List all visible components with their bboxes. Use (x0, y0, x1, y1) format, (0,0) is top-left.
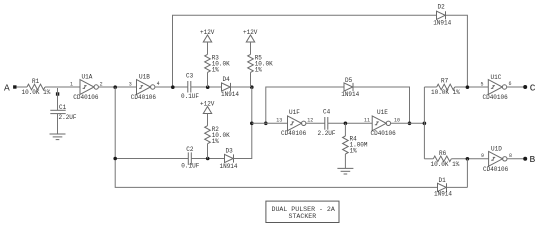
capacitor C4 (318, 108, 336, 136)
svg-text:D3: D3 (226, 148, 234, 155)
wire D4 to junction (231, 86, 252, 88)
svg-text:U1A: U1A (82, 74, 93, 81)
svg-text:0.1UF: 0.1UF (181, 163, 199, 170)
resistor R2 (205, 126, 230, 159)
wire U1A out to U1B in (98, 86, 136, 88)
svg-text:B: B (530, 154, 536, 165)
svg-text:1N914: 1N914 (433, 20, 451, 27)
wire C2 to D3 (191, 158, 224, 160)
wire U1C out to node C (507, 86, 524, 88)
diode D5 (341, 77, 359, 98)
svg-text:A: A (4, 82, 10, 93)
op-amp U1F (inverter) (276, 109, 313, 137)
svg-text:4: 4 (157, 81, 160, 87)
junction D1 riser (466, 157, 470, 161)
wire R1 to U1A input (45, 86, 80, 88)
svg-text:2.2UF: 2.2UF (59, 114, 77, 121)
svg-text:2.2UF: 2.2UF (318, 130, 336, 137)
svg-text:2: 2 (100, 81, 103, 87)
svg-text:STACKER: STACKER (289, 213, 317, 220)
svg-text:CD40106: CD40106 (73, 94, 99, 101)
svg-text:C3: C3 (186, 72, 194, 79)
wire top feedback left segment (173, 15, 437, 87)
op-amp U1E (inverter) (364, 109, 400, 137)
svg-text:CD40106: CD40106 (131, 94, 157, 101)
op-amp U1A (inverter) (70, 74, 103, 101)
svg-text:CD40106: CD40106 (483, 166, 509, 173)
junction top feedback right (466, 85, 470, 89)
junction left rail / C2 row (113, 157, 117, 161)
svg-text:CD40106: CD40106 (281, 130, 307, 137)
svg-text:D1: D1 (439, 177, 447, 184)
svg-text:C4: C4 (323, 108, 331, 115)
svg-text:1N914: 1N914 (341, 91, 359, 98)
svg-text:D4: D4 (223, 76, 231, 83)
wire D5 loop left riser (266, 87, 344, 123)
svg-text:12: 12 (307, 117, 313, 123)
capacitor C2 (181, 146, 199, 169)
svg-text:U1B: U1B (139, 74, 150, 81)
wire C4 to U1E input (328, 122, 372, 124)
wire top feedback right segment (446, 15, 467, 87)
wire C1 tap down (57, 88, 59, 110)
resistor R1 (22, 78, 51, 96)
svg-text:DUAL PULSER - 2A: DUAL PULSER - 2A (272, 206, 335, 213)
title box (266, 201, 339, 222)
op-amp U1D (inverter) (481, 146, 512, 174)
node A (4, 82, 27, 93)
svg-text:0.1UF: 0.1UF (181, 93, 199, 100)
svg-text:10.0K 1%: 10.0K 1% (22, 89, 51, 96)
resistor R7 (431, 78, 460, 96)
node B (523, 154, 535, 165)
svg-text:R1: R1 (32, 78, 40, 85)
wire D1 riser (466, 159, 468, 188)
capacitor C1 (50, 104, 77, 121)
ground (R4) (337, 168, 353, 174)
wire U1B out to C3 (155, 86, 188, 88)
resistor R3 (205, 54, 230, 87)
svg-text:1: 1 (70, 81, 73, 87)
capacitor C3 (181, 72, 199, 100)
junction riser / U1F row (250, 122, 254, 126)
svg-text:U1D: U1D (491, 146, 502, 153)
wire D1 to riser corner (447, 186, 468, 188)
svg-text:9: 9 (481, 153, 484, 159)
wire R6 row lead (424, 158, 433, 160)
diode D4 (221, 76, 239, 98)
wire U1E out to T (391, 122, 425, 124)
wire junction down to lower-left rail (115, 87, 437, 187)
+12V (R2) (200, 101, 215, 126)
junction to top feedback (171, 85, 175, 89)
svg-text:5: 5 (481, 81, 484, 87)
wire vertical R7row-R6row (423, 87, 425, 159)
svg-text:R6: R6 (439, 150, 447, 157)
resistor R6 (431, 150, 460, 168)
svg-text:1%: 1% (350, 148, 358, 155)
op-amp U1C (inverter) (481, 74, 512, 101)
svg-text:CD40106: CD40106 (483, 94, 509, 101)
wire R6 to U1D input (451, 158, 488, 160)
wire U1F input row (252, 122, 288, 124)
svg-text:10.0K 1%: 10.0K 1% (431, 89, 460, 96)
resistor R5 (248, 54, 273, 87)
svg-text:U1E: U1E (377, 109, 388, 116)
junction R3 (206, 85, 210, 89)
node C (523, 82, 536, 93)
wire U1D out to node B (507, 158, 524, 160)
junction C1 tap (56, 92, 59, 95)
svg-text:6: 6 (509, 81, 512, 87)
svg-text:1%: 1% (212, 138, 220, 145)
junction T vertical (423, 122, 427, 126)
svg-text:1%: 1% (212, 67, 220, 74)
wire riser main node down to D3 row (235, 87, 252, 158)
svg-text:1N914: 1N914 (434, 191, 452, 198)
wire C3 to D4 (191, 86, 222, 88)
svg-text:R7: R7 (441, 78, 449, 85)
svg-text:1N914: 1N914 (221, 91, 239, 98)
svg-text:1N914: 1N914 (220, 163, 238, 170)
junction loop left (264, 122, 268, 126)
svg-text:C2: C2 (186, 146, 194, 153)
svg-text:D2: D2 (438, 4, 446, 11)
svg-text:13: 13 (276, 117, 282, 123)
junction (113, 85, 117, 89)
wire C2 row from left rail (115, 158, 188, 160)
svg-text:D5: D5 (345, 77, 353, 84)
junction R5 / riser (250, 85, 254, 89)
svg-text:U1F: U1F (289, 109, 300, 116)
svg-text:3: 3 (129, 81, 132, 87)
junction R2 (206, 157, 210, 161)
svg-text:1%: 1% (255, 67, 263, 74)
ground (C1) (50, 134, 66, 140)
svg-text:10: 10 (394, 117, 400, 123)
diode D1 (434, 177, 452, 197)
+12V (R5) (243, 29, 258, 54)
wire C1 to ground (57, 114, 59, 134)
diode D2 (433, 4, 451, 27)
wire R7 to U1C input (455, 86, 489, 88)
+12V (R3) (200, 29, 215, 54)
svg-text:11: 11 (364, 117, 370, 123)
svg-text:CD40106: CD40106 (371, 130, 397, 137)
resistor R4 (343, 123, 368, 168)
diode D3 (220, 148, 238, 171)
wire U1F out to C4 (306, 122, 325, 124)
svg-text:C1: C1 (59, 104, 67, 111)
junction loop right (408, 122, 412, 126)
wire D3 to riser (drawn above) (234, 158, 252, 160)
svg-text:C: C (530, 82, 536, 93)
svg-text:U1C: U1C (491, 74, 502, 81)
svg-text:10.0K 1%: 10.0K 1% (431, 161, 460, 168)
op-amp U1B (inverter) (129, 74, 160, 101)
wire R7 row lead (424, 86, 436, 88)
svg-text:8: 8 (509, 153, 512, 159)
junction R4 (344, 122, 348, 126)
wire D5 to loop right riser (353, 87, 410, 123)
